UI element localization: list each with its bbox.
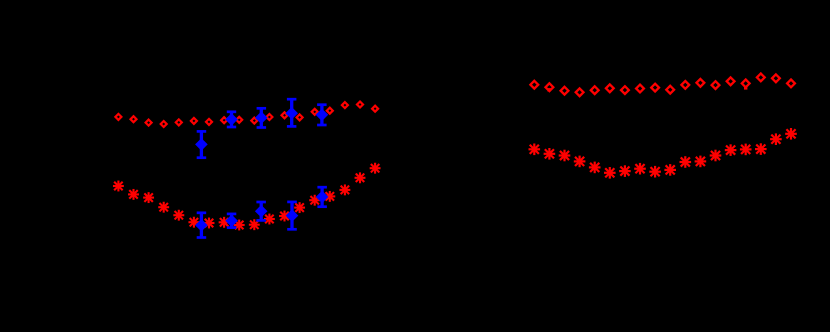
- series: right panel upper branch, red open diamonds: [530, 74, 795, 97]
- point: right panel small red dot marker near x=549: [547, 88, 550, 91]
- point: lower-branch blue errorbar 4: blue diamond with error bar at (292,216): [286, 202, 299, 229]
- series: right panel lower branch, red stars: [530, 129, 796, 177]
- point: upper-branch blue errorbar 4: blue diamond with error bar at (292,113): [285, 99, 298, 126]
- point: upper-branch blue errorbar 1: blue diamond with error bar at (201,144): [195, 131, 208, 157]
- series: left panel lower branch, red stars: [114, 164, 380, 230]
- point: lower-branch blue errorbar 5: blue diamond with error bar at (322,197): [316, 187, 329, 207]
- series: left panel upper branch, red open diamonds: [115, 102, 378, 128]
- point: lower-branch blue errorbar 1: blue diamond with error bar at (201,225): [195, 213, 208, 238]
- point: lower-branch blue errorbar 3: blue diamond with error bar at (261,211): [255, 202, 268, 220]
- point: lower-branch blue errorbar 2: blue diamond with error bar at (232,221): [225, 214, 238, 228]
- point: upper-branch blue errorbar 3: blue diamond with error bar at (261,118): [255, 108, 268, 127]
- point: right panel small red dot marker near x=745: [744, 86, 747, 89]
- point: upper-branch blue errorbar 5: blue diamond with error bar at (322,115): [316, 105, 329, 125]
- point: upper-branch blue errorbar 2: blue diamond with error bar at (232,119): [225, 112, 238, 127]
